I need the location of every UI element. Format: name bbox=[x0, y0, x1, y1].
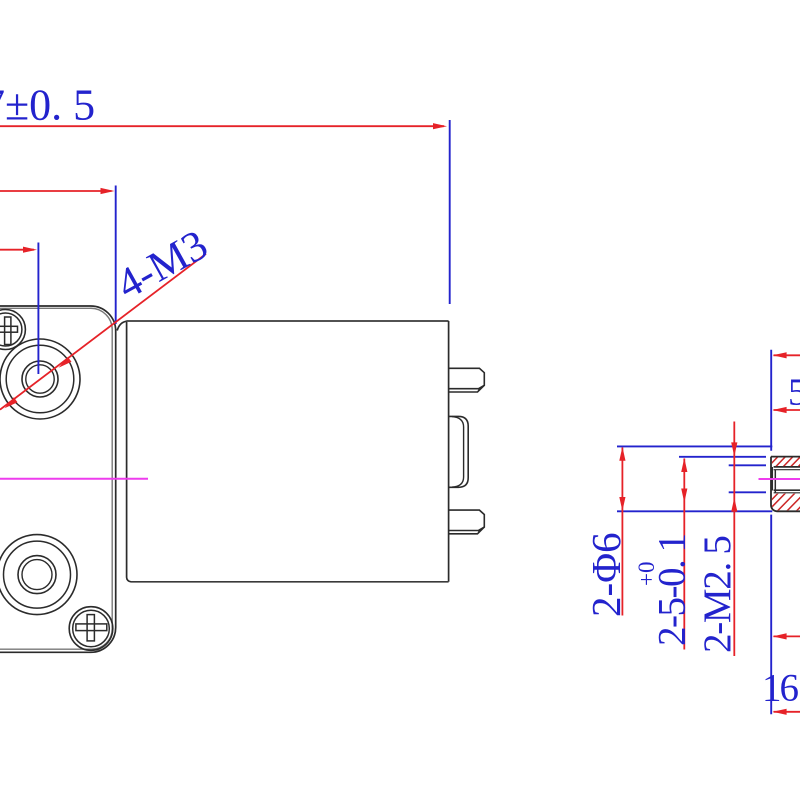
mounting plate outer outline bbox=[0, 306, 116, 652]
extension line at hole center bbox=[37, 243, 39, 375]
extension line at plate right edge bbox=[115, 186, 117, 325]
lower mounting hole bore outer bbox=[18, 556, 56, 594]
dimension 2-M2.5 line bbox=[733, 422, 735, 657]
right edge dimension arrow b bbox=[774, 409, 800, 411]
dimension line to plate edge bbox=[0, 190, 112, 192]
terminal tab T2 lower edge bbox=[449, 527, 485, 534]
lower mounting hole counterbore ring bbox=[4, 541, 71, 608]
leader arrowhead at hole outer bbox=[5, 397, 18, 408]
right edge dimension arrow a bbox=[774, 354, 800, 356]
motor cylinder body bottom edge bbox=[131, 581, 449, 583]
hatch bottom band bbox=[766, 492, 800, 514]
svg-text:7±0. 5: 7±0. 5 bbox=[0, 81, 95, 130]
upper mounting hole bore outer bbox=[22, 361, 58, 397]
svg-text:5: 5 bbox=[788, 372, 800, 414]
terminal tab T2 end wedge bbox=[478, 527, 485, 534]
bottom-right screw slot vertical bbox=[87, 615, 94, 641]
section hole bottom wall edges bbox=[774, 489, 800, 491]
lower mounting hole outer circle bbox=[0, 535, 77, 615]
motor cylinder body right edge bbox=[448, 321, 450, 582]
motor cylinder body top edge bbox=[126, 320, 448, 322]
section part left edge and bottom bbox=[771, 457, 800, 512]
extension line phi6 bottom bbox=[617, 510, 772, 512]
dimension line to hole center bbox=[0, 249, 34, 251]
leader line 4-M3 bbox=[0, 254, 206, 410]
vertical extension line right view lower bbox=[770, 515, 772, 715]
mounting plate inner contour bbox=[0, 308, 112, 649]
centerline right view bbox=[759, 478, 800, 480]
lower mounting hole bore inner bbox=[22, 560, 52, 590]
svg-text:2-Φ6: 2-Φ6 bbox=[583, 532, 629, 617]
hatch top band bbox=[766, 455, 800, 470]
dimension 2-phi6 line bbox=[621, 448, 623, 616]
svg-text:+0: +0 bbox=[634, 562, 659, 586]
extension line hole top bbox=[679, 456, 766, 458]
cylinder-to-plate fillet bbox=[117, 321, 126, 330]
vertical extension line right view upper bbox=[770, 350, 772, 451]
connector boss inner contour bbox=[452, 417, 464, 488]
dimension line 7±0.5 bbox=[0, 125, 444, 127]
terminal tab T1 outline bbox=[449, 368, 485, 388]
section hole back wall bbox=[771, 467, 773, 491]
bottom-right screw head outer circle bbox=[69, 607, 113, 651]
extension line phi6 top bbox=[617, 445, 772, 447]
top-left screw slot vertical bbox=[5, 317, 11, 345]
right edge dimension arrow c bbox=[774, 635, 800, 637]
terminal tab T1 lower edge bbox=[449, 385, 485, 392]
svg-text:2-5-0. 1: 2-5-0. 1 bbox=[651, 535, 694, 646]
centerline left view bbox=[0, 478, 148, 480]
svg-text:4-M3: 4-M3 bbox=[109, 221, 215, 308]
upper mounting hole counterbore ring bbox=[6, 345, 74, 413]
leader arrowhead at hole bore bbox=[59, 357, 72, 368]
svg-text:16: 16 bbox=[762, 667, 799, 710]
top-left screw head outer circle bbox=[0, 310, 25, 350]
extension line thread top bbox=[729, 464, 766, 466]
bottom-right screw slot horizontal bbox=[76, 624, 107, 631]
extension line thread bottom bbox=[729, 491, 766, 493]
dimension 2-5 line bbox=[683, 459, 685, 650]
right edge dimension arrow d bbox=[774, 711, 800, 713]
upper mounting hole outer circle bbox=[0, 339, 80, 419]
section hole top wall edges bbox=[774, 466, 800, 468]
top-left screw head inner circle bbox=[0, 313, 22, 346]
upper mounting hole bore inner bbox=[26, 365, 54, 393]
terminal tab T1 end wedge bbox=[478, 385, 485, 392]
bottom-right screw head inner circle bbox=[73, 610, 110, 647]
connector boss outer outline bbox=[449, 416, 469, 487]
extension line at cylinder right bbox=[449, 120, 451, 304]
section part top edge bbox=[771, 456, 800, 458]
top-left screw slot horizontal bbox=[0, 326, 18, 332]
svg-text:2-M2. 5: 2-M2. 5 bbox=[696, 536, 739, 653]
motor cylinder body left edge bbox=[127, 322, 131, 582]
terminal tab T2 outline bbox=[449, 510, 485, 530]
